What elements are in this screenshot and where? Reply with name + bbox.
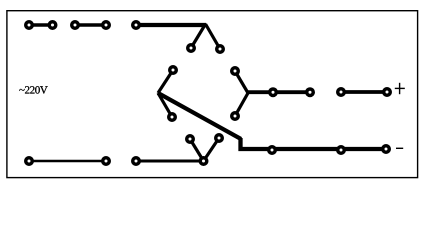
pad P8 bbox=[170, 67, 177, 74]
pad P3 bbox=[72, 22, 79, 29]
wire W1 (top-left jumper 1) bbox=[29, 23, 53, 27]
wire W6 (right chevron with horizontal trace) bbox=[235, 71, 310, 116]
pad P1 bbox=[26, 22, 33, 29]
border frame bbox=[7, 11, 418, 178]
wire W5 (long diagonal trace to bottom rail) bbox=[158, 93, 386, 149]
pad P10 bbox=[232, 68, 239, 75]
pad P14 bbox=[338, 89, 345, 96]
pad P6 bbox=[188, 45, 195, 52]
pad P2 bbox=[49, 22, 56, 29]
wire W10 (bottom V fork) bbox=[190, 138, 219, 161]
pad P18 bbox=[133, 158, 140, 165]
pad P16 bbox=[26, 158, 33, 165]
wire W2 (top-left jumper 2) bbox=[75, 23, 106, 27]
wire W8 (bottom-left jumper) bbox=[29, 160, 106, 163]
pad P5 bbox=[133, 22, 140, 29]
pad P21 bbox=[216, 135, 223, 142]
wire W3 (top horizontal trace with fork) bbox=[136, 24, 220, 49]
pad P22 bbox=[269, 147, 276, 154]
pad P24 bbox=[383, 146, 390, 153]
label + (positive output) bbox=[395, 83, 405, 94]
pad P12 bbox=[270, 89, 277, 96]
wire W7 (plus output jumper) bbox=[341, 90, 387, 94]
pad P17 bbox=[103, 158, 110, 165]
pad P20 bbox=[187, 136, 194, 143]
pad P7 bbox=[217, 46, 224, 53]
pad P11 bbox=[232, 113, 239, 120]
pad P9 bbox=[169, 114, 176, 121]
pad P4 bbox=[103, 22, 110, 29]
label ~220V bbox=[19, 86, 47, 93]
pad P13 bbox=[307, 89, 314, 96]
pad P15 bbox=[384, 89, 391, 96]
pad P23 bbox=[338, 147, 345, 154]
label - (negative output) bbox=[396, 148, 403, 149]
wire W9 (bottom-middle jumper) bbox=[136, 160, 204, 163]
pad P19 bbox=[200, 158, 207, 165]
wire W4 (left chevron arms) bbox=[158, 70, 173, 117]
